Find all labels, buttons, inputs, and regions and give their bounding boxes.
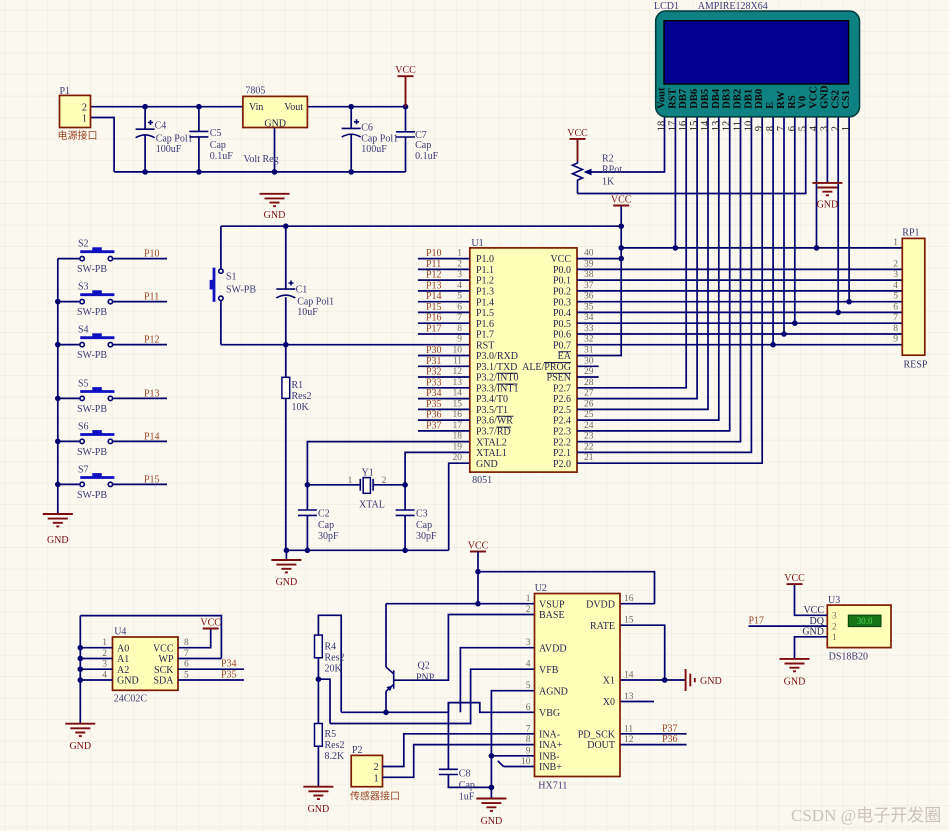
svg-text:DB7: DB7 [678,89,689,109]
svg-text:AGND: AGND [539,686,568,697]
svg-text:GND: GND [117,676,139,687]
svg-text:P0.4: P0.4 [553,308,571,319]
svg-text:0.1uF: 0.1uF [415,151,439,162]
switch S1 SW-PB [210,268,257,302]
svg-text:GND: GND [481,816,503,827]
svg-text:Cap: Cap [415,140,431,151]
svg-text:10: 10 [521,757,531,767]
svg-text:Vout: Vout [657,87,668,109]
power port VCC above U1 [611,195,632,206]
svg-text:3: 3 [832,612,837,622]
svg-text:P13: P13 [144,388,160,399]
svg-text:SW-PB: SW-PB [77,350,107,361]
U4 pin 6 SCK [154,660,189,676]
svg-text:P11: P11 [144,292,159,303]
capacitor C6 Cap Pol1 100uF [342,107,398,172]
svg-text:4: 4 [457,281,462,291]
svg-text:S6: S6 [78,421,89,432]
svg-text:DB6: DB6 [689,89,700,109]
svg-text:11: 11 [624,724,633,734]
svg-text:C8: C8 [459,769,471,780]
U1 pin 14 P3.4/T0 [418,389,508,406]
svg-text:Cap: Cap [416,520,432,531]
wire R1 bottom to ground [285,550,287,560]
svg-text:SW-PB: SW-PB [226,285,256,296]
svg-text:P37: P37 [662,723,678,734]
svg-text:23: 23 [584,432,594,442]
svg-text:P16: P16 [426,313,442,324]
svg-text:Res2: Res2 [292,391,312,402]
svg-text:P33: P33 [426,377,442,388]
svg-text:Cap: Cap [459,780,475,791]
svg-text:3: 3 [526,638,531,648]
U1 pin 33 P0.6 [553,324,594,341]
U1 pin 7 P1.6 [418,313,494,330]
ground symbol under 7805 [260,194,290,221]
svg-text:P35: P35 [221,670,237,681]
power port VCC top-left [395,65,416,107]
capacitor C7 Cap 0.1uF [396,107,439,172]
svg-text:8: 8 [526,735,531,745]
svg-text:1: 1 [841,126,852,131]
power port VCC U4 [200,618,221,629]
junction dot VCC DVDD [475,569,481,575]
wire U1 pin20 GND down [449,463,470,550]
switch S2 SW-PB [58,239,167,276]
U3 pin 3 VCC [803,605,837,622]
svg-text:S5: S5 [78,378,89,389]
svg-text:30pF: 30pF [318,531,339,542]
wire U2 pin11 PD_SCK [620,733,687,735]
ground symbol switches [43,514,73,546]
U2 pin 14 X1 [603,671,634,687]
svg-text:3: 3 [893,270,898,280]
temperature sensor U3 DS18B20 body [827,595,891,663]
svg-text:1: 1 [526,594,531,604]
wire U2 pin14 X1 to ground [620,679,686,681]
svg-text:BASE: BASE [539,610,565,621]
svg-text:GND: GND [802,627,824,638]
svg-text:1: 1 [348,476,353,486]
U1 pin 17 P3.7/RD [418,421,511,438]
svg-text:EA: EA [558,351,572,362]
svg-text:P1.0: P1.0 [476,254,494,265]
U1 pin 29 PSEN [547,367,599,384]
svg-text:2: 2 [893,259,898,269]
svg-text:GND: GND [276,577,298,588]
U1 pin 40 VCC [550,249,593,266]
svg-text:P0.5: P0.5 [553,319,571,330]
svg-text:16: 16 [624,594,634,604]
U2 pin 10 INB+ [521,757,562,773]
svg-text:1uF: 1uF [459,792,475,803]
svg-text:RPot: RPot [602,165,622,176]
svg-text:2: 2 [82,102,87,113]
U1 pin 32 P0.7 [553,335,594,352]
svg-text:P2.1: P2.1 [553,448,571,459]
svg-text:5: 5 [457,292,462,302]
ground symbol U4 [65,724,95,752]
svg-text:电源接口: 电源接口 [58,129,98,142]
U1 pin 25 P2.4 [553,410,594,427]
U2 pin 11 PD_SCK [578,724,634,740]
svg-text:VCC: VCC [468,541,489,552]
svg-text:P2.7: P2.7 [553,383,571,394]
junction dot crystal left [305,482,311,488]
wire U4 pin6 SCK [178,668,244,670]
svg-text:P3.2/INT0: P3.2/INT0 [476,373,519,384]
svg-text:A0: A0 [117,643,129,654]
svg-text:P0.3: P0.3 [553,297,571,308]
svg-text:Volt Reg: Volt Reg [244,154,279,165]
U2 pin 1 VSUP [526,594,565,610]
svg-text:SW-PB: SW-PB [77,307,107,318]
svg-text:Cap Pol1: Cap Pol1 [297,296,334,307]
svg-text:Vin: Vin [249,102,263,113]
wire LCD Vout column to potentiometer wiper [590,117,665,172]
wire LCD RS column to P0.5 [792,117,798,326]
wire LCD VCC column to VCC row [814,117,820,251]
svg-text:1: 1 [82,113,87,124]
U1 pin 13 P3.3/INT1 [418,378,519,395]
svg-text:1: 1 [832,633,837,643]
wire net VCC row to RP1 pin1 [621,247,902,249]
svg-text:SW-PB: SW-PB [77,447,107,458]
svg-text:Cap Pol1: Cap Pol1 [361,133,398,144]
svg-text:32: 32 [584,335,594,345]
power port VCC potentiometer [567,128,588,161]
svg-text:5: 5 [526,681,531,691]
wire crystal right [373,484,405,486]
svg-text:AMPIRE128X64: AMPIRE128X64 [698,1,768,12]
svg-text:RST: RST [667,88,678,108]
svg-text:21: 21 [584,453,594,463]
svg-text:INB-: INB- [539,751,560,762]
svg-text:28: 28 [584,378,594,388]
svg-text:16: 16 [453,410,463,420]
U1 pin 18 XTAL2 [453,432,507,449]
ground symbol sideways X1 [686,669,722,691]
svg-text:DB1: DB1 [743,89,754,109]
svg-text:14: 14 [624,671,634,681]
wire S1 bottom to RST row [220,301,222,345]
ground symbol U3 [780,659,810,688]
svg-text:13: 13 [453,378,463,388]
svg-text:Res2: Res2 [325,653,345,664]
svg-text:1: 1 [102,638,107,648]
svg-text:24C02C: 24C02C [114,694,148,705]
connector P1 电源接口 [58,86,98,142]
wire ground bottom rail [114,171,405,173]
svg-text:DB2: DB2 [733,89,744,109]
ground symbol under LCD [812,183,842,211]
capacitor C5 Cap 0.1uF [189,107,233,172]
LCD pin name labels [657,85,853,109]
U2 pin 15 RATE [590,616,634,632]
wire LCD RW column to P0.6 [781,117,787,337]
connector P2 传感器接口 [350,745,400,803]
U4 pin 2 A1 [102,649,129,665]
op-amp U2 HX711 body [535,583,621,792]
svg-text:VCC: VCC [611,195,632,206]
junction dots switch bus [55,299,61,487]
wire net VIN top rail P1.2 to 7805 Vin [91,106,243,108]
svg-text:VCC: VCC [567,128,588,139]
svg-text:9: 9 [526,746,531,756]
wire U3 DQ pin [749,625,828,627]
resistor R2 RPot 1K potentiometer [573,154,623,194]
svg-text:PNP: PNP [416,673,435,684]
svg-text:17: 17 [453,421,463,431]
svg-text:C2: C2 [318,509,330,520]
svg-text:16: 16 [678,121,689,132]
wire crystal ground rail [286,549,448,551]
junction dot divider tap [316,676,322,682]
svg-text:Cap: Cap [318,520,334,531]
wire U2 pin9 INB- [491,755,534,757]
svg-text:RST: RST [476,340,494,351]
svg-text:20: 20 [453,453,463,463]
svg-text:18: 18 [453,432,463,442]
svg-text:P12: P12 [426,270,442,281]
svg-text:传感器接口: 传感器接口 [350,790,400,803]
svg-text:RP1: RP1 [902,228,919,239]
svg-text:DB4: DB4 [711,88,722,109]
svg-text:Y1: Y1 [362,468,374,479]
switch S5 SW-PB [58,378,167,415]
U1 pin 35 P0.4 [553,302,594,319]
svg-text:U1: U1 [471,238,483,249]
wire P2 pin2 to INA- [383,734,535,767]
svg-text:18: 18 [657,121,668,132]
svg-text:CSDN @电子开发圈: CSDN @电子开发圈 [791,806,941,825]
junction dots power rails [142,104,408,175]
svg-text:40: 40 [584,249,594,259]
U1 pin 6 P1.5 [418,302,494,319]
switch S3 SW-PB [58,282,167,319]
switch S7 SW-PB [58,464,167,501]
U2 pin 13 X0 [603,692,634,708]
svg-text:10: 10 [453,346,463,356]
svg-text:8.2K: 8.2K [325,751,346,762]
svg-text:C6: C6 [361,123,373,134]
svg-text:24: 24 [584,421,594,431]
U1 pin 22 P2.1 [553,442,594,459]
svg-text:0.1uF: 0.1uF [210,151,234,162]
svg-text:R5: R5 [325,729,337,740]
LCD module LCD1 AMPIRE128X64 body [654,1,860,117]
svg-text:RESP: RESP [904,360,928,371]
svg-text:P1.1: P1.1 [476,265,494,276]
svg-text:P36: P36 [426,410,442,421]
svg-text:S3: S3 [78,282,89,293]
svg-text:P1.2: P1.2 [476,276,494,287]
svg-text:15: 15 [453,399,463,409]
svg-text:19: 19 [453,442,463,452]
svg-text:A1: A1 [117,654,129,665]
U3 pin 2 DQ [810,616,837,633]
svg-text:P14: P14 [426,291,442,302]
svg-text:29: 29 [584,367,594,377]
svg-text:P35: P35 [426,399,442,410]
ground symbol under R5 [303,787,333,815]
svg-text:P1: P1 [60,86,71,97]
svg-text:C5: C5 [210,128,222,139]
transistor Q2 PNP [386,604,435,713]
svg-text:Res2: Res2 [325,740,345,751]
svg-text:R1: R1 [292,380,304,391]
svg-text:1: 1 [374,774,379,785]
svg-text:30pF: 30pF [416,531,437,542]
svg-text:8: 8 [893,324,898,334]
svg-text:RS: RS [787,95,798,109]
wire U4 pin5 SDA [178,679,244,681]
svg-text:P3.1/TXD: P3.1/TXD [476,362,517,373]
wire crystal left [307,484,360,486]
junction dot RATE X1 [662,677,668,683]
svg-text:VCC: VCC [395,65,416,76]
U1 pin 11 P3.1/TXD [418,356,518,373]
svg-text:P3.0/RXD: P3.0/RXD [476,351,518,362]
svg-text:39: 39 [584,259,594,269]
U1 pin 21 P2.0 [553,453,594,470]
svg-text:2: 2 [382,476,387,486]
svg-text:7: 7 [457,313,462,323]
svg-text:P2.4: P2.4 [553,416,571,427]
junction dots VCC vertical [618,223,624,261]
U1 pin 19 XTAL1 [453,442,507,459]
svg-text:INB+: INB+ [539,762,562,773]
svg-text:4: 4 [893,281,898,291]
svg-text:P34: P34 [221,659,237,670]
wire net RST row to U1 pin9 [221,344,470,346]
wire switch ground bus [57,259,59,514]
svg-text:10: 10 [743,121,754,132]
svg-text:7: 7 [526,724,531,734]
svg-text:SW-PB: SW-PB [77,490,107,501]
svg-text:13: 13 [711,121,722,132]
svg-text:GND: GND [264,210,286,221]
U1 pin 2 P1.1 [418,259,494,276]
svg-text:8: 8 [184,638,189,648]
svg-text:P36: P36 [662,734,678,745]
svg-text:GND: GND [819,85,830,109]
U1 pin 1 P1.0 [418,249,494,266]
svg-text:6: 6 [526,703,531,713]
svg-text:P0.0: P0.0 [553,265,571,276]
junction dots U4 bus [78,645,84,683]
svg-text:35: 35 [584,302,594,312]
svg-text:P2.0: P2.0 [553,459,571,470]
svg-text:DB0: DB0 [754,89,765,109]
svg-text:P30: P30 [426,345,442,356]
svg-text:GND: GND [264,118,286,129]
svg-text:4: 4 [809,125,820,131]
switch S6 SW-PB [58,421,167,458]
wire U2 pin5 AGND down to ground [491,691,534,799]
U4 pin 7 WP [159,649,190,665]
svg-text:P2.2: P2.2 [553,437,571,448]
svg-text:6: 6 [184,660,189,670]
svg-text:2: 2 [102,649,107,659]
svg-text:10K: 10K [292,402,310,413]
wire net VBG row with jog [341,703,534,713]
svg-text:P3.5/T1: P3.5/T1 [476,405,508,416]
wire U1 pin18 XTAL2 to crystal [307,442,469,485]
wire net P2 rows up to LCD DB columns [577,117,762,463]
svg-text:WP: WP [159,654,174,665]
svg-text:27: 27 [584,389,594,399]
svg-text:4: 4 [102,671,107,681]
wire U2 pin16 DVDD stub [620,603,655,605]
svg-text:P32: P32 [426,367,442,378]
svg-text:XTAL1: XTAL1 [476,448,507,459]
svg-text:31: 31 [584,346,594,356]
svg-text:Cap: Cap [210,140,226,151]
wire Q2 base to U2 BASE pin [394,615,535,681]
svg-text:R2: R2 [602,154,614,165]
svg-text:PD_SCK: PD_SCK [578,729,616,740]
svg-text:37: 37 [584,281,594,291]
svg-text:S1: S1 [226,272,237,283]
U1 pin 5 P1.4 [418,292,494,309]
svg-text:8: 8 [765,126,776,131]
wire U2 pin3 AVDD down to VBG row [460,648,534,713]
svg-text:P14: P14 [144,431,160,442]
svg-text:P2: P2 [352,745,363,756]
svg-text:VCC: VCC [200,618,221,629]
wire LCD CS1 column to P0.3 [846,117,852,305]
svg-text:VCC: VCC [784,573,805,584]
U1 pin 39 P0.0 [553,259,594,276]
svg-text:2: 2 [457,259,462,269]
resistor pack RP1 RESP body [902,228,928,371]
U1 pin 36 P0.3 [553,292,594,309]
svg-text:9: 9 [893,335,898,345]
wire net VCC rail above U1 [221,225,621,227]
svg-text:2: 2 [374,762,379,773]
wire U2 pin13 X0 stub [620,701,654,703]
U4 pin 3 A2 [102,660,129,676]
crystal Y1 XTAL [348,468,387,511]
wire U1 pin40 VCC [577,258,621,260]
U2 pin 3 AVDD [526,638,567,654]
U1 pin 12 P3.2/INT0 [418,367,519,384]
U1 pin 38 P0.1 [553,270,594,287]
junction dot C8 bottom [489,785,495,791]
svg-text:S7: S7 [78,464,89,475]
svg-text:P2.3: P2.3 [553,427,571,438]
U1 pin 9 RST [457,335,494,352]
svg-text:10uF: 10uF [297,307,318,318]
wire net VCC 7805 Vout rail [307,106,405,108]
svg-text:VCC: VCC [809,86,820,109]
wire U1 pin31 EA to VCC vertical [577,206,621,356]
U1 pin 27 P2.6 [553,389,594,406]
svg-text:Q2: Q2 [418,661,430,672]
junction dot INB- AGND [489,753,495,759]
svg-text:CS1: CS1 [841,90,852,109]
wire 7805 GND pin down [274,128,276,172]
svg-text:P1.4: P1.4 [476,297,494,308]
svg-text:GND: GND [784,677,806,688]
svg-text:100uF: 100uF [156,144,182,155]
wire U4 left pins bus [80,616,221,724]
wire S1 top to VCC rail [220,226,222,268]
svg-text:3: 3 [819,126,830,131]
svg-text:30: 30 [584,356,594,366]
U1 pin 4 P1.3 [418,281,494,298]
